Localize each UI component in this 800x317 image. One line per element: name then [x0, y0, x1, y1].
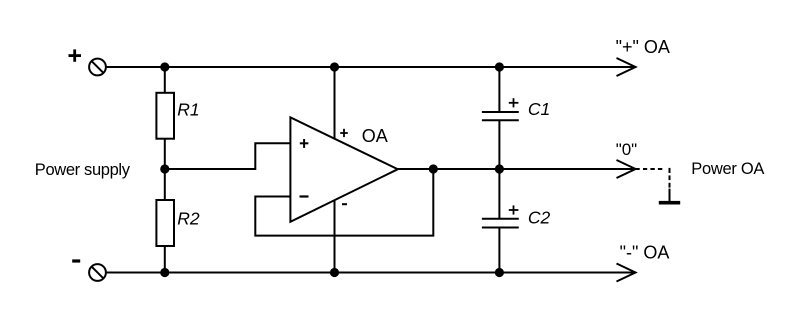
resistor R2 [156, 200, 174, 246]
node D (mid R1/R2 divider) [160, 164, 169, 173]
node F (mid rail / C1-C2) [495, 164, 504, 173]
svg-text:OA: OA [362, 126, 388, 146]
wire R2 top lead [164, 169, 166, 200]
label + C2 polarity [509, 205, 519, 214]
svg-text:C2: C2 [528, 208, 551, 228]
wire op-amp V+ supply lead [334, 67, 336, 139]
label - supply pin [342, 203, 347, 205]
label + (supply positive) [69, 49, 82, 61]
wire mid node to op-amp + input [165, 143, 291, 169]
terminal X2 (-) [89, 264, 106, 281]
node B (top rail / op-amp V+) [330, 62, 339, 71]
wire top rail [106, 66, 636, 68]
ground (Power OA reference) [659, 201, 680, 205]
svg-text:R1: R1 [177, 100, 199, 120]
label - (supply negative) [72, 259, 80, 262]
wire bottom rail [106, 272, 636, 274]
arrow output "-" OA [617, 264, 636, 282]
wire R1 bottom lead [164, 139, 166, 169]
wire C2 top lead [498, 169, 500, 219]
wire C2 bottom lead [498, 228, 500, 273]
resistor R1 [156, 93, 174, 139]
svg-text:"-" OA: "-" OA [620, 242, 670, 262]
wire R1 top lead [164, 67, 166, 93]
node E (output / feedback) [429, 164, 438, 173]
wire dashed 0 to ground node [635, 168, 669, 201]
label + input pin [300, 139, 309, 148]
label + C1 polarity [509, 98, 519, 107]
wire op-amp V- supply lead [334, 200, 336, 273]
terminal X1 (+) [89, 59, 106, 76]
node G (bottom rail / R2) [160, 268, 169, 277]
wire C1 top lead [498, 67, 500, 112]
wire C1 bottom lead [498, 120, 500, 169]
node H (bottom rail / op-amp V-) [330, 268, 339, 277]
svg-text:R2: R2 [177, 208, 200, 228]
svg-text:Power supply: Power supply [35, 161, 131, 179]
op-amp U1 (OA) [290, 117, 397, 221]
wire R2 bottom lead [164, 246, 166, 273]
arrow output "+" OA [617, 58, 636, 76]
svg-text:"0": "0" [616, 140, 638, 159]
node C (top rail / C1) [495, 62, 504, 71]
capacitor C2 [482, 219, 519, 228]
node I (bottom rail / C2) [495, 268, 504, 277]
svg-text:Power OA: Power OA [691, 160, 764, 178]
svg-text:C1: C1 [528, 99, 550, 119]
wire output [398, 168, 636, 170]
label + supply pin [340, 129, 348, 137]
wire feedback loop [255, 169, 433, 236]
arrow output "0" [617, 160, 636, 178]
node A (top rail / R1) [160, 62, 169, 71]
label - input pin [300, 195, 309, 197]
capacitor C1 [482, 112, 519, 120]
svg-text:"+" OA: "+" OA [616, 37, 670, 57]
